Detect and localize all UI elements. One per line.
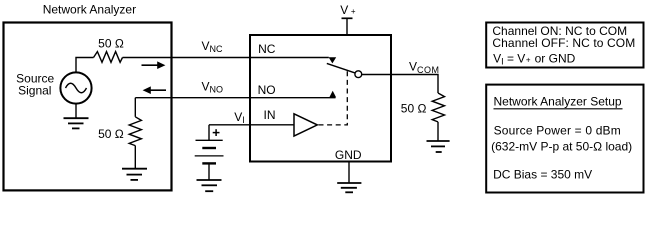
battery polarity + [213,129,220,136]
svg-text:NC: NC [258,42,276,56]
wire: COM load to ground [437,122,439,141]
ground: IC [337,183,361,192]
svg-text:50 Ω: 50 Ω [401,102,427,116]
source: Source Signal sine generator [60,72,91,103]
svg-text:NO: NO [258,83,276,97]
wire: V_I to IN pin [209,124,294,126]
wire: V_I down to battery [208,125,210,140]
wire: source bottom to ground [75,104,77,118]
wire: battery to ground [208,163,210,180]
wire: V+ to IC top [346,18,348,35]
wire: NC net from resistor to switch NC pin [123,57,329,59]
ground: NO termination [122,169,147,180]
note box: channel states [486,23,643,68]
svg-text:IN: IN [264,108,276,122]
wire: source top to resistor [76,58,94,73]
driver buffer (control) [294,114,317,136]
svg-text:(632-mV P-p at 50-Ω load): (632-mV P-p at 50-Ω load) [491,139,632,153]
wire: COM output [362,75,438,94]
ground: source [64,118,89,128]
wire: IC GND pin to ground [348,162,350,183]
svg-text:Network Analyzer: Network Analyzer [43,2,136,16]
wire: NO termination drop [134,98,136,117]
switch throw arrowhead: NC (pointing down to lever) [329,57,337,63]
svg-text:GND: GND [335,148,362,162]
svg-text:50 Ω: 50 Ω [98,37,124,51]
svg-text:50 Ω: 50 Ω [98,127,124,141]
battery: V_I bias source [195,140,224,163]
svg-text:DC Bias = 350 mV: DC Bias = 350 mV [493,167,592,181]
switch COM contact circle [355,71,362,78]
resistor: 50 ohm NO termination (vertical zigzag) [129,117,141,146]
wire: resistor to ground [134,146,136,169]
IC body: analog switch [250,35,391,162]
switch lever [327,63,355,73]
ground: battery [197,180,222,191]
wire: NO net [135,97,335,99]
svg-text:VI = V+ or GND: VI = V+ or GND [493,52,576,67]
svg-text:Signal: Signal [18,84,51,98]
svg-text:Network Analyzer Setup: Network Analyzer Setup [494,94,622,108]
ground: COM load [427,141,450,152]
arrow: signal direction right [142,61,166,69]
note box: network analyzer setup [486,85,643,193]
resistor: 50 ohm series (horizontal zigzag) [94,52,123,63]
enclosure box: Network Analyzer [4,23,172,191]
resistor: 50 ohm COM load (vertical zigzag) [432,93,444,122]
arrow: signal direction left [143,86,166,94]
control dashed line: buffer to lever [319,71,348,125]
svg-text:Source Power = 0 dBm: Source Power = 0 dBm [494,123,621,137]
switch throw arrowhead: NO (pointing up) [329,91,336,98]
svg-text:Channel OFF: NC to COM: Channel OFF: NC to COM [492,36,635,50]
